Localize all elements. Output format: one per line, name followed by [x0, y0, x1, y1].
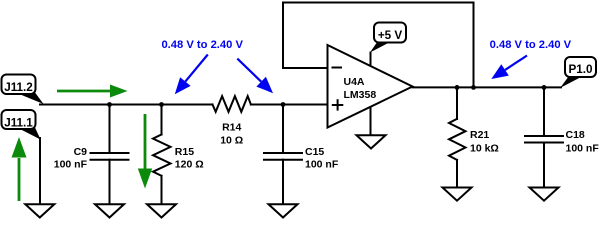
svg-text:100 nF: 100 nF — [305, 159, 339, 171]
svg-text:J11.1: J11.1 — [4, 117, 33, 130]
svg-text:0.48 V to 2.40 V: 0.48 V to 2.40 V — [490, 39, 572, 51]
svg-text:R21: R21 — [470, 129, 489, 141]
svg-text:J11.2: J11.2 — [4, 81, 33, 94]
svg-text:10 Ω: 10 Ω — [220, 134, 243, 146]
svg-text:C18: C18 — [566, 129, 585, 141]
svg-text:0.48 V to 2.40 V: 0.48 V to 2.40 V — [161, 39, 243, 51]
svg-text:10 kΩ: 10 kΩ — [470, 143, 499, 155]
svg-text:+5 V: +5 V — [378, 29, 403, 42]
svg-text:C15: C15 — [305, 146, 324, 158]
svg-text:100 nF: 100 nF — [54, 159, 88, 171]
svg-text:R14: R14 — [222, 122, 241, 134]
svg-text:U4A: U4A — [344, 76, 365, 88]
svg-text:R15: R15 — [175, 146, 194, 158]
svg-text:LM358: LM358 — [344, 89, 377, 101]
svg-text:100 nF: 100 nF — [566, 143, 600, 155]
svg-text:C9: C9 — [74, 146, 88, 158]
svg-text:P1.0: P1.0 — [568, 63, 593, 76]
svg-text:120 Ω: 120 Ω — [175, 159, 204, 171]
